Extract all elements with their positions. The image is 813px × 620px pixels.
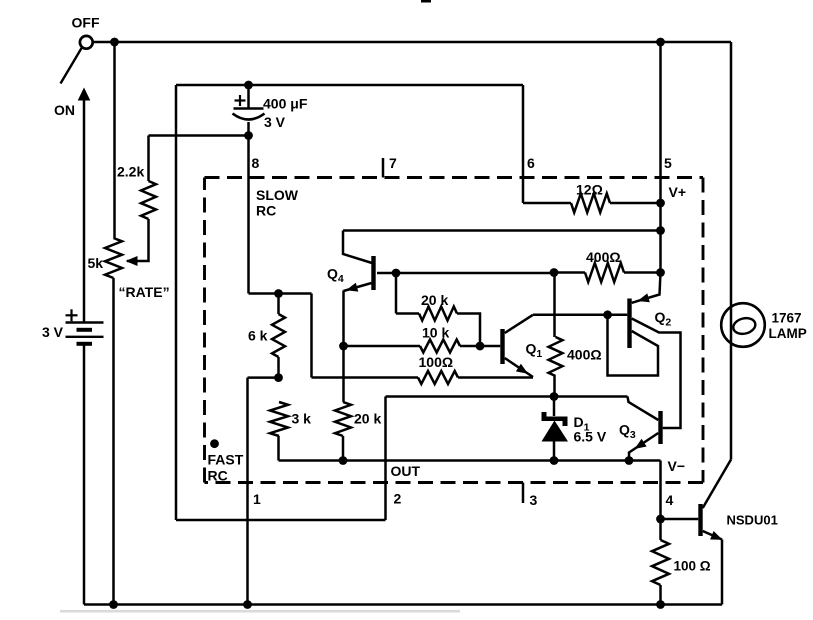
resistor 6k body (272, 314, 285, 357)
label pin 1 (253, 491, 261, 507)
resistor 2.2k body (141, 181, 156, 219)
junction dot NSDU01 base (656, 515, 665, 524)
label V+ (669, 184, 687, 200)
label D1 (574, 414, 590, 434)
junction dot 20k-v bottom (339, 456, 348, 465)
transistor Q2 emitter arrow (PNP) (638, 293, 650, 302)
wire 10k left lead (344, 345, 421, 348)
svg-text:1767: 1767 (772, 311, 802, 326)
wire 100ohm-ext bottom lead (659, 585, 662, 605)
wire top rail (switch to lamp corner) (93, 41, 731, 44)
transistor Q4 emitter arrow (346, 283, 358, 292)
wire switch junction down to 5k pot (113, 42, 116, 238)
label 12ohm (576, 182, 603, 198)
transistor Q2 bar (627, 299, 631, 349)
battery plus sign (66, 309, 78, 321)
transistor Q2 collector B tied to base (608, 315, 659, 376)
label SLOW RC (256, 187, 299, 219)
transistor Q2 collector A to Q3 base (632, 319, 681, 429)
svg-text:400Ω: 400Ω (586, 249, 621, 265)
label OFF (72, 15, 100, 31)
label 20k horizontal (421, 292, 448, 308)
wire NSDU01 emitter drop (721, 540, 724, 605)
IC boundary dashed box (205, 178, 704, 483)
wire 400ohm-v top lead (553, 273, 556, 338)
junction dot V+/400ohm-h (656, 268, 665, 277)
resistor 100ohm external body (652, 540, 669, 585)
resistor 100ohm internal body (418, 371, 458, 384)
transistor NSDU01 bar (698, 504, 702, 536)
potentiometer 5k body (105, 238, 122, 278)
wire feedback bottom horizontal (OUT loop) (176, 519, 386, 522)
label 3 V cap (264, 114, 286, 130)
svg-text:20 k: 20 k (421, 292, 448, 308)
capacitor C1 400uF top plate (234, 107, 264, 110)
lamp 1767 filament loop (732, 316, 757, 336)
junction dot Q4 base/20k (392, 269, 401, 278)
svg-text:12Ω: 12Ω (576, 182, 603, 198)
label 10k (422, 325, 449, 341)
wire 5k pot bottom to ground rail (112, 278, 115, 605)
resistor 20k horizontal body (419, 307, 457, 321)
transistor Q4 emitter (344, 283, 372, 291)
svg-text:“RATE”: “RATE” (119, 284, 170, 300)
junction dot cap top (244, 81, 253, 90)
resistor 20k vertical body (335, 402, 351, 436)
lamp 1767 bulb circle (721, 303, 765, 347)
wire 100ohm right lead to Q1 emitter (458, 376, 533, 379)
wire pin4 V- drop (659, 461, 662, 520)
wire NSDU01 base lead (661, 518, 699, 521)
junction dot V+/top rail (656, 38, 665, 47)
node FAST RC dot (210, 439, 219, 448)
junction dot 6k bottom (274, 373, 283, 382)
capacitor C1 top lead (247, 85, 250, 109)
svg-text:ON: ON (54, 102, 75, 118)
svg-text:5k: 5k (88, 255, 104, 271)
transistor Q3 bar (658, 411, 662, 444)
resistor 10k body (420, 340, 460, 353)
label pin 2 (394, 491, 402, 507)
svg-text:20 k: 20 k (354, 411, 381, 427)
label 20k vertical (354, 411, 381, 427)
wire Q4 collector rail y230 (343, 229, 661, 232)
wire cap-top line (x176 to pin6 corner) (176, 84, 523, 87)
pin 3 tick (522, 483, 525, 504)
label pin 8 (252, 155, 260, 171)
wire slow-RC to 100ohm left lead (312, 376, 419, 379)
wire 20k-h right lead and drop (457, 314, 480, 347)
wire 400ohm-h right lead to V+ node (624, 271, 661, 274)
svg-text:V+: V+ (669, 184, 687, 200)
label OUT (391, 463, 421, 479)
wire feedback left vertical (OUT loop) (175, 85, 178, 520)
transistor Q3 emitter arrow (635, 439, 647, 449)
svg-text:1: 1 (253, 491, 261, 507)
wire 20k-v bottom lead (342, 436, 345, 461)
label ON (54, 102, 75, 118)
wire pin2 OUT vertical (384, 397, 387, 521)
wire slow-RC horizontal to 6k top (249, 292, 312, 295)
junction dot 100ohm-ext/ground rail (656, 600, 665, 609)
transistor Q4 bar (371, 256, 375, 290)
wire cap bottom to 2.2k corner (149, 134, 249, 137)
junction dot Q2 base (603, 310, 612, 319)
svg-text:V−: V− (668, 458, 686, 474)
svg-text:400Ω: 400Ω (567, 347, 602, 363)
wire V+ pin5 drop from top rail (659, 42, 662, 273)
svg-text:3 k: 3 k (292, 411, 312, 427)
capacitor plus sign (235, 95, 246, 106)
label 100ohm internal (419, 354, 454, 370)
label Q2 (655, 309, 672, 329)
pin 7 tick (382, 158, 385, 178)
wire battery plus up (ON arm) (83, 90, 86, 323)
label 3 V battery (42, 324, 64, 340)
transistor Q1 collector (505, 315, 533, 333)
label Q1 (526, 341, 543, 361)
wiper arrowhead into 5k (126, 256, 138, 266)
svg-text:3 V: 3 V (264, 114, 286, 130)
wire OUT line y396 (pin2 to Q3 collector) (386, 395, 628, 398)
label pin 7 (389, 155, 397, 171)
wire 12ohm to V+ node (610, 202, 661, 205)
resistor 2.2k bottom lead to wiper (127, 219, 149, 261)
svg-text:3: 3 (530, 492, 538, 508)
resistor 6k top lead (277, 294, 280, 315)
wire battery minus lead (83, 344, 86, 605)
label 5k (88, 255, 104, 271)
svg-text:2: 2 (394, 491, 402, 507)
wire V- line y460 (279, 459, 661, 462)
svg-text:2.2k: 2.2k (117, 164, 144, 180)
transistor Q1 bar (500, 329, 504, 364)
switch S1 toggle (OFF position) (61, 36, 93, 84)
svg-text:7: 7 (389, 155, 397, 171)
label 6k (248, 328, 268, 344)
svg-text:3 V: 3 V (42, 324, 64, 340)
ON position arrowhead (78, 88, 91, 101)
wire 400ohm-h left lead (554, 271, 585, 274)
svg-text:RC: RC (256, 203, 276, 219)
junction dot V+/Q4 collector rail (656, 226, 665, 235)
transistor NSDU01 emitter arrow (710, 531, 722, 540)
wire pin6 drop (522, 85, 525, 203)
junction dot cap bottom (244, 131, 253, 140)
label NSDU01 (727, 513, 778, 528)
svg-text:100Ω: 100Ω (419, 354, 454, 370)
wire 20k-h left lead (396, 312, 419, 315)
junction dot D1 anode (550, 456, 559, 465)
wire D1 top lead (553, 397, 556, 417)
junction dot 10k/Q4 emitter (339, 342, 348, 351)
svg-text:OFF: OFF (72, 15, 100, 31)
capacitor C1 curved plate (233, 114, 265, 120)
wire Q3 emitter drop (628, 452, 631, 461)
junction dot 6k top (274, 289, 283, 298)
stray scan mark top (421, 0, 431, 3)
label 1767 LAMP (769, 311, 807, 342)
wire pin1 vertical to ground rail (246, 378, 249, 605)
junction dot switch/top rail (110, 38, 119, 47)
label 6.5 V (574, 429, 607, 445)
label pin 5 (664, 155, 672, 171)
label 2.2k (117, 164, 144, 180)
wire 400ohm-v bottom lead (553, 376, 556, 397)
wire 6k bottom to pin1 (248, 376, 279, 379)
wire 3k bottom lead (277, 436, 280, 461)
label Q4 (327, 266, 344, 286)
wire pin8 drop (cap bottom to slow RC) (247, 136, 250, 294)
transistor Q4 collector (343, 231, 372, 264)
resistor 6k bottom lead (277, 357, 280, 378)
resistor 400ohm vertical body (549, 337, 563, 376)
label pin 6 (527, 155, 535, 171)
label V- (668, 458, 686, 474)
svg-text:OUT: OUT (391, 463, 421, 479)
transistor NSDU01 emitter (703, 531, 722, 540)
diode D1 zener cathode bar (542, 412, 568, 426)
wire Q4 base line y273 (377, 272, 554, 275)
label RATE (119, 284, 170, 300)
svg-text:100 Ω: 100 Ω (674, 559, 711, 574)
wire 100ohm-ext top lead (659, 519, 662, 540)
wire Q1 collector to Q2 base y315 (533, 314, 627, 317)
wire pin6 corner to 12ohm (523, 202, 571, 205)
label 400ohm vertical (567, 347, 602, 363)
capacitor C1 bottom lead (247, 122, 250, 136)
junction dot pin1/ground rail (243, 600, 252, 609)
label 400uF (263, 96, 308, 112)
label FAST RC (208, 452, 244, 484)
transistor Q1 emitter (505, 358, 533, 377)
svg-text:8: 8 (252, 155, 260, 171)
svg-text:SLOW: SLOW (256, 187, 299, 203)
svg-text:6 k: 6 k (248, 328, 268, 344)
label pin 3 (530, 492, 538, 508)
wire Q4 emitter / 20k vertical (342, 291, 345, 403)
label Q3 (619, 422, 636, 442)
wire slow-RC jog down x311 (310, 294, 313, 378)
junction dot pin5/12ohm (656, 199, 665, 208)
label 100ohm external (674, 559, 711, 574)
wire bottom ground rail (84, 603, 722, 606)
scan smudge bottom (60, 610, 460, 613)
resistor 12ohm body (571, 194, 610, 213)
transistor Q3 collector (628, 397, 659, 421)
svg-text:400 μF: 400 μF (263, 96, 308, 112)
svg-text:10 k: 10 k (422, 325, 449, 341)
diode D1 zener triangle (542, 421, 569, 442)
label 3k (292, 411, 312, 427)
junction dot 400ohm-v top (550, 268, 559, 277)
wire lamp feed (top-right corner down to lamp/NSDU01 collector) (730, 42, 733, 460)
wire 20k-h drop from Q4 base (395, 273, 398, 314)
resistor 2.2k top lead (147, 136, 150, 182)
resistor 400ohm top body (585, 263, 624, 282)
svg-text:6.5 V: 6.5 V (574, 429, 607, 445)
svg-text:4: 4 (666, 492, 674, 508)
junction dot 5k/ground rail (109, 600, 118, 609)
wire 10k right lead to Q1 base (460, 345, 500, 348)
svg-text:RC: RC (208, 468, 228, 484)
label 400ohm top (586, 249, 621, 265)
junction dot 400ohm-v bottom/D1 (550, 392, 559, 401)
svg-text:NSDU01: NSDU01 (727, 513, 778, 528)
junction dot Q3 emitter (625, 456, 634, 465)
transistor Q2 emitter (632, 273, 661, 303)
svg-text:6: 6 (527, 155, 535, 171)
junction dot Q1 base (476, 342, 485, 351)
battery B1 3V plates (66, 323, 104, 344)
resistor 3k body (270, 402, 288, 436)
wire D1 bottom lead (553, 440, 556, 461)
transistor Q3 emitter (629, 433, 658, 453)
label pin 4 (666, 492, 674, 508)
transistor Q1 emitter arrow (516, 364, 528, 374)
transistor NSDU01 collector (703, 460, 731, 509)
svg-text:5: 5 (664, 155, 672, 171)
svg-text:LAMP: LAMP (769, 326, 807, 341)
svg-text:FAST: FAST (208, 452, 244, 468)
